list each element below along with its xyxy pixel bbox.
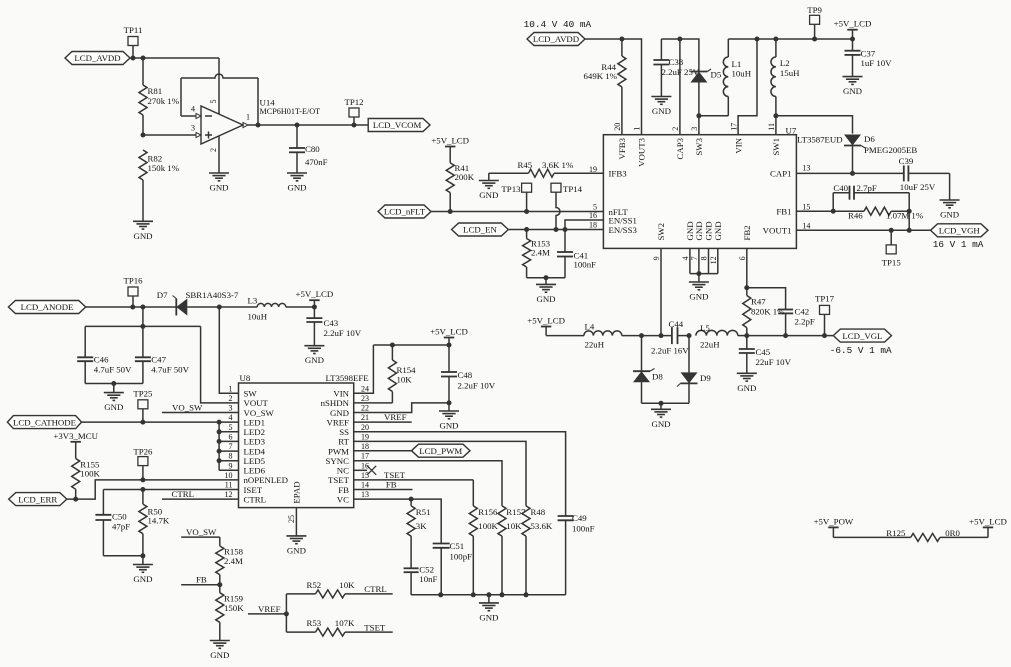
net label VREF (R52/R53) bbox=[248, 604, 286, 614]
svg-text:L3: L3 bbox=[248, 295, 258, 305]
svg-text:25: 25 bbox=[287, 515, 296, 523]
wire D8 leads bbox=[641, 336, 643, 404]
svg-text:2.4M: 2.4M bbox=[531, 248, 550, 258]
capacitor C50 47pF bbox=[95, 490, 130, 556]
test point TP11 bbox=[124, 25, 143, 58]
svg-text:VO_SW: VO_SW bbox=[172, 402, 203, 412]
svg-text:13: 13 bbox=[361, 490, 369, 499]
junction R81/R82/op-amp + bbox=[141, 133, 146, 138]
wire feedback loop U14 bbox=[181, 74, 258, 125]
svg-text:C51: C51 bbox=[450, 541, 465, 551]
svg-text:15: 15 bbox=[802, 203, 810, 212]
ground below R82 bbox=[133, 221, 153, 241]
svg-text:+5V_LCD: +5V_LCD bbox=[969, 516, 1007, 526]
svg-text:470nF: 470nF bbox=[305, 157, 328, 167]
svg-text:R157: R157 bbox=[506, 507, 526, 517]
svg-text:GND: GND bbox=[651, 419, 670, 429]
svg-text:TSET: TSET bbox=[328, 475, 350, 485]
resistor R125 0R0 bbox=[833, 528, 988, 542]
svg-text:107K: 107K bbox=[335, 618, 355, 628]
wire CAP1 pin 13 bbox=[796, 172, 903, 174]
svg-text:C50: C50 bbox=[112, 511, 127, 521]
resistor R52 10K bbox=[286, 580, 392, 598]
svg-text:LCD_CATHODE: LCD_CATHODE bbox=[13, 417, 76, 427]
svg-text:TP15: TP15 bbox=[882, 258, 902, 268]
svg-text:10nF: 10nF bbox=[419, 574, 437, 584]
junction LED4 bbox=[217, 449, 222, 454]
svg-text:R47: R47 bbox=[751, 297, 766, 307]
svg-text:IFB3: IFB3 bbox=[609, 169, 628, 179]
junction R41/nFLT bbox=[448, 209, 453, 214]
svg-text:TSET: TSET bbox=[364, 622, 386, 632]
svg-text:GND: GND bbox=[479, 612, 498, 622]
svg-text:3K: 3K bbox=[416, 521, 427, 531]
svg-text:FB: FB bbox=[196, 575, 207, 585]
junction TP13/nFLT bbox=[524, 209, 529, 214]
wire +5V to L4 bbox=[546, 335, 584, 337]
wire D8/D9 gnd rail bbox=[642, 402, 690, 404]
junction C51 bottom bbox=[438, 592, 443, 597]
svg-text:47pF: 47pF bbox=[112, 521, 130, 531]
resistor R48 53.6K bbox=[522, 506, 553, 595]
svg-text:4.7uF 50V: 4.7uF 50V bbox=[94, 365, 132, 375]
svg-text:LCD_VGL: LCD_VGL bbox=[842, 331, 882, 341]
junction D6/CAP1 line bbox=[850, 171, 855, 176]
wire nSHDN pin 23 bbox=[354, 402, 393, 404]
junction R51/VC bbox=[409, 497, 414, 502]
capacitor C44 2.2uF 16V bbox=[651, 319, 689, 355]
svg-text:GND: GND bbox=[439, 421, 458, 431]
resistor R53 107K bbox=[286, 618, 392, 636]
svg-text:R82: R82 bbox=[148, 154, 163, 164]
svg-text:GND: GND bbox=[305, 355, 324, 365]
svg-text:VREF: VREF bbox=[258, 604, 281, 614]
svg-text:820K 1%: 820K 1% bbox=[751, 307, 785, 317]
wire EN/SS3 pin 18 bbox=[508, 229, 603, 231]
svg-text:LT3587EUD: LT3587EUD bbox=[797, 135, 843, 145]
svg-text:C38: C38 bbox=[669, 57, 684, 67]
wire VIN jog bbox=[738, 39, 757, 135]
svg-text:2.2uF 10V: 2.2uF 10V bbox=[458, 381, 496, 391]
inductor L5 22uH bbox=[696, 323, 747, 349]
ground below C43 bbox=[304, 346, 324, 366]
wire +5V rail (U8) bbox=[373, 344, 449, 346]
svg-text:SS: SS bbox=[339, 427, 349, 437]
svg-text:C49: C49 bbox=[572, 513, 587, 523]
diode D9 bbox=[677, 372, 711, 386]
junction gnd tap bbox=[486, 592, 491, 597]
resistor R51 3K bbox=[407, 499, 430, 568]
test point TP9 bbox=[807, 5, 822, 39]
svg-text:C37: C37 bbox=[861, 48, 876, 58]
capacitor C38 2.2uF 25V bbox=[653, 39, 699, 97]
svg-text:21: 21 bbox=[361, 413, 369, 422]
diode D6 PMEG2005EB bbox=[844, 134, 917, 155]
svg-text:10K: 10K bbox=[397, 375, 413, 385]
net label TSET pin 15 bbox=[354, 470, 474, 480]
svg-text:LED3: LED3 bbox=[244, 437, 266, 447]
junction VIN riser bbox=[755, 37, 760, 42]
svg-text:14: 14 bbox=[361, 481, 369, 490]
IC U8 LT3598EFE bbox=[225, 373, 370, 507]
svg-text:TP12: TP12 bbox=[344, 97, 363, 107]
svg-text:PMEG2005EB: PMEG2005EB bbox=[864, 145, 917, 155]
junction LED3 bbox=[217, 439, 222, 444]
wire to op-amp pin 3 bbox=[143, 134, 196, 136]
junction gnd tie R153/C41 bbox=[544, 275, 549, 280]
inductor L1 10uH bbox=[723, 39, 751, 116]
svg-text:+5V_POW: +5V_POW bbox=[814, 516, 854, 526]
port LCD_ERR bbox=[9, 493, 67, 506]
junction +5V/C48 bbox=[447, 343, 452, 348]
svg-text:L2: L2 bbox=[780, 58, 790, 68]
ground below C80 bbox=[287, 173, 307, 193]
svg-text:13: 13 bbox=[802, 164, 810, 173]
svg-text:C44: C44 bbox=[669, 319, 684, 329]
resistor R45 3.6K 1% bbox=[489, 160, 604, 177]
svg-text:1: 1 bbox=[229, 384, 233, 393]
svg-text:TP14: TP14 bbox=[563, 184, 583, 194]
svg-text:FB2: FB2 bbox=[742, 225, 752, 240]
svg-text:100nF: 100nF bbox=[574, 260, 597, 270]
wire C46/C47 bottom rail bbox=[85, 383, 143, 385]
junction R158/R159/FB bbox=[217, 582, 222, 587]
svg-text:7: 7 bbox=[690, 256, 699, 260]
svg-text:10K: 10K bbox=[506, 521, 522, 531]
svg-text:GND: GND bbox=[330, 408, 349, 418]
junction R81 top bbox=[141, 56, 146, 61]
svg-text:6: 6 bbox=[738, 256, 747, 260]
svg-text:2.2uF 10V: 2.2uF 10V bbox=[324, 328, 362, 338]
wire CAP3 pin stub bbox=[679, 39, 681, 135]
svg-text:LCD_VGH: LCD_VGH bbox=[939, 226, 981, 236]
svg-text:R156: R156 bbox=[478, 507, 498, 517]
svg-text:NC: NC bbox=[337, 466, 349, 476]
junction R48 bottom bbox=[524, 592, 529, 597]
svg-text:11: 11 bbox=[767, 123, 776, 131]
svg-text:SW1: SW1 bbox=[771, 138, 781, 156]
svg-text:R51: R51 bbox=[416, 507, 431, 517]
svg-text:EN/SS1: EN/SS1 bbox=[609, 215, 637, 225]
svg-text:TP26: TP26 bbox=[133, 446, 153, 456]
svg-text:150k 1%: 150k 1% bbox=[148, 163, 180, 173]
power +3V3_MCU bbox=[53, 431, 98, 442]
svg-text:22uH: 22uH bbox=[700, 339, 720, 349]
resistor R81 270k 1% bbox=[139, 58, 180, 135]
capacitor C80 470nF bbox=[289, 125, 328, 173]
svg-text:53.6K: 53.6K bbox=[531, 521, 553, 531]
junction TP9 bbox=[812, 37, 817, 42]
ground below C39 bbox=[940, 173, 960, 219]
svg-text:LCD_VCOM: LCD_VCOM bbox=[373, 120, 422, 130]
svg-text:150K: 150K bbox=[224, 603, 244, 613]
svg-text:2: 2 bbox=[671, 127, 680, 131]
wire LED2-LED6 bus bbox=[219, 422, 238, 470]
svg-text:8: 8 bbox=[700, 256, 709, 260]
wire CAP3 rail bbox=[661, 39, 699, 72]
capacitor C51 100pF bbox=[433, 541, 472, 595]
junction TP14/EN bbox=[554, 227, 559, 232]
junction C46/C47 gnd bbox=[111, 381, 116, 386]
svg-text:C48: C48 bbox=[458, 370, 473, 380]
junction R157 bottom bbox=[500, 592, 505, 597]
svg-text:12: 12 bbox=[709, 256, 718, 264]
svg-text:R46: R46 bbox=[848, 211, 863, 221]
svg-text:270k 1%: 270k 1% bbox=[148, 96, 180, 106]
ground below R159 bbox=[210, 641, 230, 661]
svg-text:1: 1 bbox=[246, 113, 250, 122]
svg-text:PWM: PWM bbox=[328, 446, 349, 456]
junction R46/C40 right bbox=[907, 209, 912, 214]
net label CTRL pin 12 bbox=[162, 489, 239, 499]
svg-text:LED5: LED5 bbox=[244, 456, 266, 466]
svg-text:10.4 V 40 mA: 10.4 V 40 mA bbox=[524, 19, 592, 30]
junction FB1 node bbox=[831, 209, 836, 214]
resistor R158 2.4M bbox=[216, 537, 244, 585]
wire GND pins 4,7,8,12 bbox=[690, 248, 718, 273]
svg-text:+5V_LCD: +5V_LCD bbox=[834, 19, 872, 29]
svg-text:3: 3 bbox=[229, 404, 233, 413]
wire LCD_AVDD to VOUT3 bbox=[585, 39, 642, 135]
svg-text:GND: GND bbox=[287, 545, 306, 555]
svg-text:-6.5 V 1 mA: -6.5 V 1 mA bbox=[830, 345, 892, 356]
wire op-amp pin 2 to ground bbox=[218, 136, 220, 173]
svg-text:VIN: VIN bbox=[333, 389, 349, 399]
svg-text:2: 2 bbox=[229, 394, 233, 403]
junction VREF split bbox=[284, 611, 289, 616]
svg-text:15uH: 15uH bbox=[780, 68, 800, 78]
wire VIN pin 24 bbox=[354, 345, 374, 393]
test point TP14 bbox=[551, 183, 583, 229]
svg-text:R159: R159 bbox=[224, 593, 244, 603]
junction R155/LCD_ERR bbox=[73, 497, 78, 502]
svg-text:EN/SS3: EN/SS3 bbox=[609, 225, 638, 235]
svg-text:VOUT3: VOUT3 bbox=[637, 137, 647, 166]
svg-text:GND: GND bbox=[536, 294, 555, 304]
power +5V_LCD (C48) bbox=[430, 327, 468, 346]
svg-text:TP11: TP11 bbox=[124, 25, 143, 35]
wire C40 right riser bbox=[908, 193, 910, 212]
svg-text:RT: RT bbox=[338, 437, 349, 447]
wire RT pin 19 to R48 bbox=[354, 441, 526, 506]
svg-text:D8: D8 bbox=[652, 372, 663, 382]
wire FB1 pin 15 bbox=[796, 210, 833, 212]
svg-text:D7: D7 bbox=[157, 290, 168, 300]
svg-text:100K: 100K bbox=[478, 521, 498, 531]
junction SW node U8 bbox=[217, 305, 222, 310]
svg-text:6: 6 bbox=[229, 432, 233, 441]
svg-text:C42: C42 bbox=[795, 307, 810, 317]
svg-text:FB: FB bbox=[386, 480, 397, 490]
capacitor C42 2.2pF bbox=[778, 307, 815, 336]
resistor R44 649K 1% bbox=[584, 39, 626, 135]
svg-text:+3V3_MCU: +3V3_MCU bbox=[53, 431, 98, 441]
svg-text:LCD_EN: LCD_EN bbox=[463, 225, 497, 235]
wire PWM pin 18 bbox=[354, 450, 412, 452]
op-amp U14 MCP6H01T-E/OT bbox=[191, 98, 320, 153]
resistor R46 1.07M 1% bbox=[833, 207, 924, 221]
wire D6 cathode to CAP1 bbox=[852, 146, 854, 174]
svg-text:R81: R81 bbox=[148, 86, 163, 96]
ground below C45 bbox=[737, 373, 757, 393]
junction SW2 node bbox=[659, 333, 664, 338]
net label FB pin 14 bbox=[354, 480, 413, 490]
junction R154 top bbox=[390, 343, 395, 348]
svg-text:VREF: VREF bbox=[327, 417, 350, 427]
svg-text:TP17: TP17 bbox=[815, 293, 835, 303]
svg-text:12: 12 bbox=[225, 490, 233, 499]
test point TP12 bbox=[344, 97, 363, 125]
svg-text:VOUT1: VOUT1 bbox=[763, 226, 792, 236]
svg-text:D5: D5 bbox=[711, 70, 722, 80]
capacitor C47 4.7uF 50V bbox=[135, 326, 190, 383]
wire FB1 divider riser bbox=[908, 211, 910, 230]
svg-text:16 V 1 mA: 16 V 1 mA bbox=[933, 239, 984, 250]
svg-text:24: 24 bbox=[361, 384, 369, 393]
svg-text:4.7uF 50V: 4.7uF 50V bbox=[151, 365, 189, 375]
ground EPAD bbox=[286, 536, 306, 556]
port LCD_nFLT bbox=[378, 205, 431, 218]
svg-text:GND: GND bbox=[652, 106, 671, 116]
ground bottom rail bbox=[479, 595, 499, 623]
IC U7 LT3587EUD bbox=[603, 123, 842, 265]
svg-text:4: 4 bbox=[229, 413, 233, 422]
resistor R50 14.7K bbox=[139, 490, 170, 556]
svg-text:SBR1A40S3-7: SBR1A40S3-7 bbox=[186, 290, 239, 300]
svg-text:SW2: SW2 bbox=[656, 223, 666, 241]
svg-text:GND: GND bbox=[713, 221, 723, 240]
junction EN/SS tie bbox=[563, 227, 568, 232]
junction GND pins bbox=[696, 271, 701, 276]
ground below R153/C41 bbox=[536, 278, 556, 304]
junction R44 top bbox=[619, 37, 624, 42]
wire SW1 node to D6 bbox=[776, 116, 853, 134]
svg-text:GND: GND bbox=[209, 183, 228, 193]
svg-text:4: 4 bbox=[191, 104, 195, 113]
svg-text:LCD_ERR: LCD_ERR bbox=[18, 494, 57, 504]
power +5V_LCD (L3) bbox=[296, 289, 334, 307]
svg-text:2.2pF: 2.2pF bbox=[795, 317, 815, 327]
svg-text:VO_SW: VO_SW bbox=[186, 527, 217, 537]
svg-text:17: 17 bbox=[729, 123, 738, 131]
port LCD_AVDD bbox=[65, 52, 130, 65]
wire LCD_ANODE to D7 bbox=[86, 306, 177, 308]
test point TP15 bbox=[882, 230, 902, 267]
test point TP25 bbox=[133, 388, 153, 422]
svg-text:5: 5 bbox=[229, 423, 233, 432]
port LCD_CATHODE bbox=[7, 416, 81, 429]
svg-text:LED4: LED4 bbox=[244, 446, 266, 456]
resistor R47 820K 1% bbox=[743, 288, 785, 336]
power +5V_LCD (R125) bbox=[969, 516, 1007, 537]
wire FB2 pin 6 bbox=[746, 248, 748, 287]
svg-text:D6: D6 bbox=[864, 134, 875, 144]
svg-text:VIN: VIN bbox=[733, 137, 743, 153]
svg-text:GND: GND bbox=[287, 183, 306, 193]
svg-text:LT3598EFE: LT3598EFE bbox=[326, 373, 369, 383]
svg-text:18: 18 bbox=[361, 442, 369, 451]
junction SW3/L1 bbox=[696, 113, 701, 118]
svg-text:17: 17 bbox=[361, 452, 369, 461]
wire SW2 pin 9 bbox=[660, 248, 662, 335]
wire LED1 pin 4 bbox=[82, 421, 239, 423]
svg-text:TP9: TP9 bbox=[807, 5, 822, 15]
svg-text:2.4M: 2.4M bbox=[224, 556, 243, 566]
svg-text:9: 9 bbox=[652, 256, 661, 260]
svg-text:TP16: TP16 bbox=[123, 276, 143, 286]
junction L2 top bbox=[773, 37, 778, 42]
wire TSET to R156 bbox=[472, 480, 474, 506]
junction TP11/rail bbox=[131, 56, 136, 61]
resistor R157 10K bbox=[498, 506, 526, 595]
capacitor C39 10uF 25V bbox=[899, 156, 950, 192]
test point TP26 bbox=[133, 446, 153, 480]
junction C46-C47 branch bbox=[140, 305, 145, 310]
svg-text:TSET: TSET bbox=[384, 470, 406, 480]
svg-text:+5V_LCD: +5V_LCD bbox=[430, 327, 468, 337]
svg-text:100pF: 100pF bbox=[450, 552, 473, 562]
svg-text:R45: R45 bbox=[518, 160, 533, 170]
svg-text:L1: L1 bbox=[732, 59, 742, 69]
svg-text:SW3: SW3 bbox=[694, 137, 704, 155]
wire SS pin 20 to C49 bbox=[354, 432, 566, 516]
svg-text:LCD_ANODE: LCD_ANODE bbox=[21, 302, 74, 312]
svg-text:U14: U14 bbox=[260, 98, 276, 108]
junction R156 bottom bbox=[471, 592, 476, 597]
wire LCD_AVDD rail bbox=[130, 57, 219, 59]
svg-text:U8: U8 bbox=[240, 373, 251, 383]
svg-text:7: 7 bbox=[229, 442, 233, 451]
svg-text:R125: R125 bbox=[886, 528, 906, 538]
svg-text:nOPENLED: nOPENLED bbox=[244, 475, 288, 485]
svg-text:R158: R158 bbox=[224, 546, 244, 556]
junction R50/ISET bbox=[140, 487, 145, 492]
wire LCD_ERR to nOPENLED bbox=[67, 480, 239, 499]
svg-text:C39: C39 bbox=[899, 156, 914, 166]
svg-text:LCD_AVDD: LCD_AVDD bbox=[74, 53, 120, 63]
svg-text:22uF 10V: 22uF 10V bbox=[756, 357, 792, 367]
svg-text:3.6K 1%: 3.6K 1% bbox=[542, 160, 574, 170]
net label VO_SW pin 3 bbox=[162, 402, 239, 412]
svg-text:EPAD: EPAD bbox=[292, 481, 302, 503]
inductor L2 15uH bbox=[771, 39, 800, 116]
junction feedback/output bbox=[256, 123, 261, 128]
svg-text:19: 19 bbox=[361, 432, 369, 441]
junction TP17 bbox=[822, 333, 827, 338]
svg-text:20: 20 bbox=[361, 423, 369, 432]
svg-text:+5V_LCD: +5V_LCD bbox=[527, 316, 565, 326]
ground below D8/D9 bbox=[651, 403, 671, 429]
junction VGL node bbox=[744, 333, 749, 338]
svg-text:2: 2 bbox=[209, 148, 218, 152]
svg-text:+5V_LCD: +5V_LCD bbox=[431, 136, 469, 146]
svg-text:C47: C47 bbox=[151, 355, 166, 365]
wire SW1 pin stub bbox=[775, 116, 777, 135]
svg-text:L5: L5 bbox=[700, 323, 710, 333]
junction FB2/R47/C42 bbox=[744, 285, 749, 290]
svg-text:22: 22 bbox=[361, 404, 369, 413]
svg-text:L4: L4 bbox=[585, 322, 595, 332]
svg-text:FB1: FB1 bbox=[776, 207, 791, 217]
wire VOUT pin 2 bbox=[201, 326, 239, 403]
svg-text:200K: 200K bbox=[455, 172, 475, 182]
resistor R153 2.4M bbox=[523, 230, 551, 278]
svg-text:VO_SW: VO_SW bbox=[244, 408, 275, 418]
svg-text:VOUT: VOUT bbox=[244, 398, 269, 408]
junction +5V_LCD/C37 bbox=[850, 37, 855, 42]
svg-text:10K: 10K bbox=[339, 580, 355, 590]
wire analog gnd rail bbox=[411, 594, 565, 596]
